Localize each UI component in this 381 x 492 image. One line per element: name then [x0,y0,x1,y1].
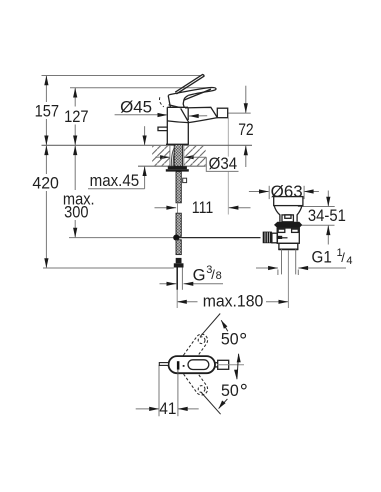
dimension 34-51 [298,191,335,245]
flexible hose upper [176,172,181,203]
dimension max.45 arrows [88,126,147,189]
label G3/8 [193,264,222,284]
bottom view: aerator [218,360,229,369]
node reference line 127 [70,87,212,89]
pop-up pull rod in hole [171,145,176,166]
svg-text:G1: G1 [312,247,332,266]
svg-text:Ø34: Ø34 [209,154,238,173]
waste lower nut [279,243,298,249]
faucet left outlet stub [158,127,167,131]
pop-up waste bayonet knob [282,215,293,222]
mounting nut [168,166,187,169]
aerator [217,108,227,118]
pop-up waste flange seal [274,222,302,228]
countertop hatching right [184,146,206,166]
bottom view: aerator centerline [217,364,244,366]
dimension 41 [136,365,199,416]
node 420 bottom reference / G1 1/4 line [43,267,174,269]
flexible hose lower [176,240,181,255]
dimension G3/8 [160,282,224,286]
bottom view: spout slot [188,360,209,370]
svg-text:34-51: 34-51 [308,206,346,225]
svg-text:50: 50 [221,330,239,349]
junction dot [173,235,179,241]
node top reference line 157 [42,75,202,77]
pop-up waste funnel [274,206,302,222]
overflow slot right [292,229,299,232]
dimension Ø45 leader and arrows [115,113,208,118]
faucet lever raised position [175,75,204,94]
overflow slot left [278,229,285,232]
pop-up waste plug head [274,197,303,206]
svg-text:G: G [193,266,206,285]
50 deg top leader [200,314,228,337]
hose gap centerline [177,203,179,213]
hose side bracket [183,178,187,182]
dimension 420 [44,145,48,268]
dimension max.180 [177,300,288,304]
svg-text:Ø45: Ø45 [120,98,152,117]
faucet body outline [166,107,189,144]
svg-text:max.45: max.45 [90,171,140,190]
bottom view: left stub [159,363,168,366]
pivot pin [277,236,283,239]
dimension max.300 [73,145,77,237]
dimension Ø34 leader [156,155,239,171]
node reference line 72 spout height [228,112,251,114]
swivel double arrow [234,353,241,379]
svg-text:Ø63: Ø63 [271,182,303,201]
countertop bottom line [138,165,206,167]
svg-text:111: 111 [192,198,214,217]
svg-text:max.180: max.180 [203,292,264,311]
bottom view: faucet base stadium [169,356,216,373]
svg-text:72: 72 [238,120,254,139]
hose nut G3/8 [174,263,184,267]
svg-text:41: 41 [159,399,176,418]
50 deg bottom leader [201,393,227,415]
countertop top surface line [42,144,253,146]
svg-text:420: 420 [32,174,59,193]
faucet spout [167,107,217,122]
hose connector [176,258,182,263]
node max.300 bottom reference + pop-up rod [69,237,176,239]
dimension 72 [244,86,248,167]
bottom view: dashed swivel position upper [180,332,210,367]
svg-text:157: 157 [35,101,60,120]
dimension 157 [44,76,48,146]
flexible hose middle [176,213,181,236]
svg-text:50: 50 [221,381,239,400]
waste tailpipe [281,249,283,274]
dimension 127 [73,88,77,146]
dimension 111 [155,118,251,215]
bottom view: aerator connector [215,362,218,364]
knurled pivot nut [263,232,272,244]
waste centerline [287,250,289,308]
node mounting hole edges [169,145,171,166]
svg-text:/: / [341,250,345,265]
bottom view: dashed swivel position lower [180,362,210,397]
pop-up waste body [277,228,299,243]
svg-text:4: 4 [346,255,352,267]
bottom view: axis bar [177,361,180,369]
label G1 1/4 [312,247,353,267]
faucet centerline lower [176,290,178,308]
faucet lever at rest [168,88,216,108]
svg-text:/: / [211,267,215,282]
svg-text:127: 127 [64,107,89,126]
supply tube [176,268,178,290]
dimension Ø63 [249,186,319,199]
svg-text:8: 8 [216,270,222,282]
pivot collar [272,233,278,243]
countertop hatching left [152,146,170,166]
threaded shank through counter [174,145,182,167]
lever swing dashed arc [159,97,163,107]
svg-text:300: 300 [64,203,88,222]
